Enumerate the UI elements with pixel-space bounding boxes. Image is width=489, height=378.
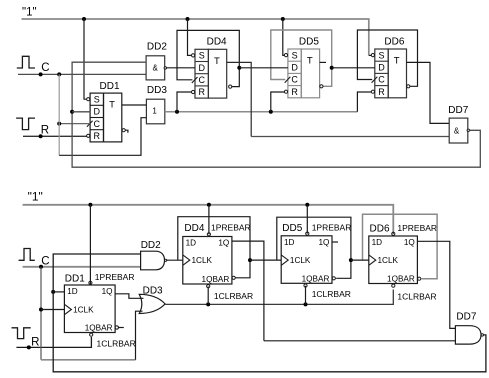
svg-text:1CLK: 1CLK <box>290 256 311 265</box>
svg-text:1PREBAR: 1PREBAR <box>211 223 251 233</box>
svg-text:DD2: DD2 <box>147 42 167 53</box>
svg-text:1CLRBAR: 1CLRBAR <box>97 339 136 349</box>
svg-text:DD5: DD5 <box>299 36 319 47</box>
svg-text:"1": "1" <box>22 7 37 19</box>
svg-text:T: T <box>109 100 115 111</box>
svg-text:D: D <box>198 63 205 73</box>
svg-text:1Q: 1Q <box>102 287 113 296</box>
svg-text:&: & <box>153 63 159 72</box>
svg-text:R: R <box>378 87 385 97</box>
svg-text:R: R <box>198 87 205 97</box>
svg-text:1Q: 1Q <box>318 238 329 247</box>
svg-text:T: T <box>214 56 220 67</box>
svg-text:D: D <box>291 63 298 73</box>
svg-text:1CLRBAR: 1CLRBAR <box>214 291 253 301</box>
svg-text:1CLRBAR: 1CLRBAR <box>312 289 351 299</box>
svg-text:S: S <box>292 50 298 60</box>
svg-text:S: S <box>378 50 384 60</box>
svg-text:1D: 1D <box>284 238 295 247</box>
svg-text:R: R <box>41 124 49 136</box>
svg-text:1QBAR: 1QBAR <box>202 275 230 284</box>
svg-text:S: S <box>94 94 100 104</box>
svg-text:DD4: DD4 <box>207 36 227 47</box>
svg-text:DD6: DD6 <box>370 224 390 235</box>
svg-text:C: C <box>41 62 49 74</box>
svg-text:&: & <box>454 126 460 135</box>
svg-text:C: C <box>94 119 101 129</box>
svg-text:1D: 1D <box>67 287 78 296</box>
svg-text:R: R <box>94 131 101 141</box>
svg-text:T: T <box>394 56 400 67</box>
svg-text:1CLK: 1CLK <box>192 256 213 265</box>
svg-text:DD4: DD4 <box>184 223 204 234</box>
svg-text:DD1: DD1 <box>100 81 120 92</box>
svg-text:1QBAR: 1QBAR <box>85 324 113 333</box>
svg-text:1Q: 1Q <box>404 238 415 247</box>
svg-text:1PREBAR: 1PREBAR <box>312 223 352 233</box>
svg-text:1D: 1D <box>186 239 197 248</box>
svg-text:1PREBAR: 1PREBAR <box>95 272 135 282</box>
svg-text:C: C <box>291 75 298 85</box>
svg-text:DD1: DD1 <box>65 273 85 284</box>
svg-text:S: S <box>199 51 205 61</box>
svg-text:1QBAR: 1QBAR <box>302 274 330 283</box>
svg-text:1: 1 <box>152 107 157 116</box>
svg-text:DD6: DD6 <box>384 36 404 47</box>
svg-text:1CLRBAR: 1CLRBAR <box>397 292 436 302</box>
svg-text:1CLK: 1CLK <box>73 306 94 315</box>
svg-text:1PREBAR: 1PREBAR <box>397 223 437 233</box>
svg-text:1D: 1D <box>372 238 383 247</box>
svg-text:1Q: 1Q <box>218 239 229 248</box>
svg-text:C: C <box>378 75 385 85</box>
svg-text:DD2: DD2 <box>141 240 161 251</box>
svg-text:DD5: DD5 <box>282 223 302 234</box>
svg-text:T: T <box>307 56 313 67</box>
svg-text:DD3: DD3 <box>147 85 167 96</box>
svg-text:D: D <box>378 63 385 73</box>
svg-text:C: C <box>198 75 205 85</box>
svg-text:DD7: DD7 <box>448 105 468 116</box>
svg-text:1QBAR: 1QBAR <box>387 275 415 284</box>
svg-text:1CLK: 1CLK <box>378 256 399 265</box>
svg-text:DD7: DD7 <box>456 312 476 323</box>
svg-text:"1": "1" <box>28 189 43 203</box>
svg-text:R: R <box>291 87 298 97</box>
svg-text:D: D <box>94 107 101 117</box>
